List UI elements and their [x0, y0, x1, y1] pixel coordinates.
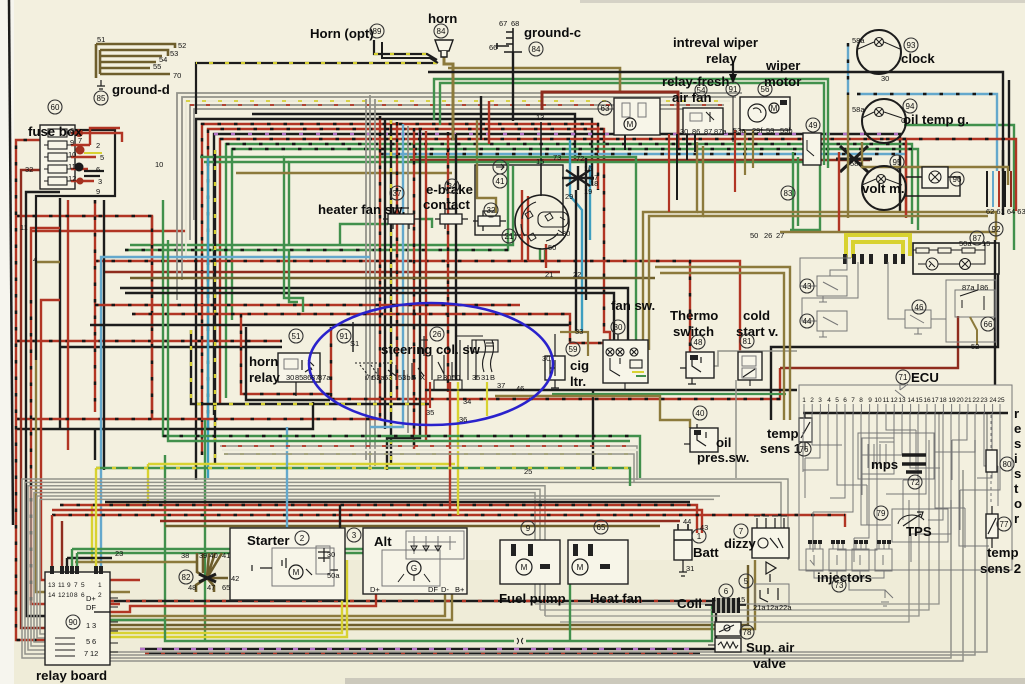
wire fusebox drop green — [164, 455, 166, 620]
svg-text:31: 31 — [481, 373, 489, 382]
wire relay drop blue — [100, 574, 102, 580]
svg-text:89: 89 — [373, 27, 382, 36]
svg-text:91: 91 — [340, 332, 349, 341]
svg-text:s: s — [1014, 466, 1021, 481]
svg-text:29f: 29f — [752, 126, 763, 135]
svg-text:DF: DF — [86, 603, 96, 612]
wire relay drop green2 — [76, 553, 78, 574]
svg-text:1: 1 — [802, 397, 806, 404]
svg-text:9: 9 — [67, 582, 71, 589]
svg-text:84: 84 — [532, 45, 541, 54]
svg-text:Coil: Coil — [677, 596, 702, 611]
svg-text:62 61 64 63: 62 61 64 63 — [986, 207, 1025, 216]
wire dark row 521 — [160, 520, 680, 522]
wire clock blue row — [857, 94, 997, 171]
wire mid row red 314 long — [132, 314, 603, 343]
wire fusebox drop black — [103, 200, 105, 470]
svg-text:30: 30 — [286, 373, 294, 382]
svg-text:cold: cold — [743, 308, 770, 323]
svg-text:46: 46 — [516, 384, 524, 393]
svg-text:22: 22 — [573, 270, 581, 279]
wire black row 354 — [771, 274, 998, 420]
wire ground-c lead — [512, 52, 514, 121]
svg-text:77: 77 — [1000, 520, 1009, 529]
ECU box — [799, 385, 1012, 570]
svg-text:44: 44 — [803, 317, 812, 326]
svg-text:55: 55 — [153, 62, 161, 71]
svg-text:42: 42 — [231, 574, 239, 583]
svg-text:Fuel pump: Fuel pump — [499, 591, 566, 606]
svg-text:21: 21 — [545, 270, 553, 279]
svg-text:6: 6 — [92, 637, 96, 646]
wire right black X junction — [836, 146, 872, 172]
wire horn relay red loop — [241, 314, 331, 394]
svg-text:34: 34 — [463, 397, 471, 406]
svg-text:M: M — [627, 120, 634, 129]
svg-text:oil: oil — [716, 435, 731, 450]
svg-text:9: 9 — [96, 187, 100, 196]
svg-text:19: 19 — [948, 397, 956, 404]
svg-text:86: 86 — [692, 127, 700, 136]
svg-text:7: 7 — [851, 397, 855, 404]
svg-text:22: 22 — [972, 397, 980, 404]
svg-text:54: 54 — [697, 86, 706, 95]
relay 46 box — [888, 262, 946, 334]
svg-text:3: 3 — [92, 621, 96, 630]
svg-text:e: e — [1014, 421, 1021, 436]
wire oil temp green — [904, 125, 1014, 250]
wire bottom black 601 — [110, 600, 712, 602]
wire blue row 154 — [380, 153, 906, 155]
relay board box — [45, 566, 118, 665]
temp sensor 2 — [986, 506, 998, 548]
svg-text:30: 30 — [542, 354, 550, 363]
wire steering yellow drop — [457, 382, 459, 515]
wire starter black top — [339, 505, 341, 528]
svg-text:53b: 53b — [398, 373, 411, 382]
relay 43 box — [800, 255, 851, 302]
svg-text:25: 25 — [524, 467, 532, 476]
svg-text:M: M — [293, 568, 300, 577]
wire red row341 — [16, 340, 282, 342]
svg-text:12: 12 — [58, 592, 66, 599]
svg-text:2: 2 — [300, 534, 305, 543]
wire black row 293 — [125, 293, 614, 340]
wire grey bundle A — [177, 93, 742, 300]
wire brown rows to batt — [105, 565, 748, 625]
wire trunk red right — [447, 132, 449, 392]
svg-text:wiper: wiper — [765, 58, 800, 73]
svg-text:43: 43 — [700, 523, 708, 532]
svg-text:4: 4 — [827, 397, 831, 404]
blue ellipse — [309, 303, 553, 425]
svg-text:83: 83 — [784, 189, 793, 198]
instrument cluster box — [913, 243, 999, 274]
svg-text:DF: DF — [428, 585, 438, 594]
svg-text:Horn (opt): Horn (opt) — [310, 26, 374, 41]
svg-text:48: 48 — [694, 338, 703, 347]
wire trunk black2 — [387, 130, 420, 470]
ECU pin numbers — [802, 397, 1005, 404]
svg-text:41: 41 — [496, 177, 505, 186]
wire bottom grey pair — [60, 413, 987, 661]
wire right dash drops — [987, 171, 1011, 207]
svg-text:o: o — [1014, 496, 1022, 511]
wire horn brown feed — [444, 56, 453, 140]
svg-text:91: 91 — [729, 85, 738, 94]
svg-text:volt m.: volt m. — [862, 181, 905, 196]
left scan border — [9, 0, 13, 525]
wire left edge red 1 — [16, 140, 90, 640]
svg-text:73: 73 — [835, 581, 844, 590]
steering yellow 34 — [486, 382, 488, 416]
battery — [674, 524, 692, 576]
ECU K switch — [895, 384, 908, 398]
wire green row 553 — [77, 552, 440, 554]
steering col switch internals — [355, 336, 498, 390]
svg-text:51: 51 — [97, 35, 105, 44]
wire black row 502 — [105, 501, 690, 503]
svg-text:5: 5 — [86, 637, 90, 646]
wire brown row 232 — [780, 231, 996, 233]
ECU pins — [804, 404, 1000, 413]
svg-text:steering col. sw: steering col. sw — [381, 342, 481, 357]
TPS box — [892, 509, 948, 542]
wire cyan drop left — [207, 158, 209, 478]
wire top bundle red 3 — [226, 144, 912, 398]
wire volt red vertical — [905, 142, 907, 215]
sup air valve box 78 — [708, 622, 741, 652]
svg-text:87: 87 — [973, 234, 982, 243]
alt box 3 — [363, 528, 467, 594]
wire top bundle red 1 — [202, 124, 598, 455]
svg-text:mps: mps — [871, 457, 898, 472]
svg-text:sens 1: sens 1 — [760, 441, 801, 456]
svg-text:injectors: injectors — [817, 570, 872, 585]
svg-text:10: 10 — [66, 592, 74, 599]
svg-text:relay: relay — [706, 51, 737, 66]
wire trunk blue — [370, 124, 403, 427]
scan edge strips — [345, 678, 1025, 684]
svg-text:39 40: 39 40 — [199, 551, 218, 560]
wire brown row212 — [697, 212, 996, 240]
svg-text:94: 94 — [906, 102, 915, 111]
relay 44 box — [802, 262, 858, 337]
wire brown right corners — [655, 267, 790, 420]
svg-text:motor: motor — [764, 74, 801, 89]
svg-text:horn: horn — [249, 354, 278, 369]
wire grey bus — [22, 479, 788, 658]
wire steering drop black — [425, 390, 797, 470]
svg-text:44: 44 — [683, 517, 691, 526]
svg-text:50: 50 — [452, 373, 460, 382]
svg-text:D+: D+ — [370, 585, 380, 594]
svg-text:temp: temp — [987, 545, 1019, 560]
svg-text:23: 23 — [115, 549, 123, 558]
svg-text:76: 76 — [800, 445, 809, 454]
coil — [705, 598, 746, 613]
wire trunk red to row420 — [16, 116, 380, 419]
resistor pack — [986, 415, 997, 505]
svg-text:36: 36 — [459, 415, 467, 424]
svg-text:48: 48 — [188, 583, 196, 592]
svg-text:30: 30 — [881, 74, 889, 83]
svg-text:5: 5 — [81, 582, 85, 589]
svg-text:58a: 58a — [852, 36, 865, 45]
svg-text:7: 7 — [739, 527, 744, 536]
oil temp gauge — [862, 99, 906, 143]
fuse box red cluster — [71, 128, 122, 181]
svg-text:63: 63 — [601, 104, 610, 113]
wire blue drop 287 — [286, 427, 288, 557]
cig lighter box 59 — [545, 332, 588, 388]
circled arrow 500,167 — [493, 160, 507, 174]
svg-text:50: 50 — [750, 231, 758, 240]
svg-text:53b: 53b — [780, 126, 793, 135]
svg-text:G: G — [901, 116, 907, 125]
svg-text:53: 53 — [384, 373, 392, 382]
wire mid green vertical — [204, 420, 206, 641]
svg-text:33: 33 — [575, 327, 583, 336]
svg-text:46: 46 — [915, 303, 924, 312]
wire ignition junction — [562, 166, 594, 190]
svg-text:58a: 58a — [852, 105, 865, 114]
svg-text:Thermo: Thermo — [670, 308, 718, 323]
svg-text:49: 49 — [809, 121, 818, 130]
wire relay box stubs — [625, 134, 695, 200]
svg-text:24: 24 — [989, 397, 997, 404]
svg-text:r: r — [1014, 406, 1019, 421]
svg-text:35: 35 — [426, 408, 434, 417]
mps box — [858, 433, 934, 479]
svg-text:26: 26 — [433, 330, 442, 339]
svg-text:i: i — [1014, 451, 1018, 466]
wire trunk dark — [455, 134, 457, 380]
svg-text:78: 78 — [743, 628, 752, 637]
svg-text:ground-d: ground-d — [112, 82, 170, 97]
svg-text:Heat fan: Heat fan — [590, 591, 642, 606]
wire left edge red 2 — [31, 228, 120, 604]
svg-text:51: 51 — [292, 332, 301, 341]
svg-text:21: 21 — [964, 397, 972, 404]
wire relay drop black — [66, 558, 68, 574]
wire red row267 — [104, 271, 560, 273]
svg-text:35: 35 — [472, 373, 480, 382]
svg-text:58a: 58a — [850, 159, 863, 168]
svg-text:ground-c: ground-c — [524, 25, 581, 40]
svg-text:15: 15 — [982, 239, 990, 248]
svg-text:relay: relay — [249, 370, 280, 385]
horn opt wires — [374, 40, 437, 60]
wire green row 641 — [165, 605, 712, 641]
svg-text:ltr.: ltr. — [570, 374, 586, 389]
air fan relay box — [683, 108, 723, 134]
svg-text:68: 68 — [511, 19, 519, 28]
wire gauges brown L — [862, 142, 1008, 185]
wire right edge black v — [1008, 80, 1010, 171]
wire brown row173 — [236, 172, 452, 174]
fuse box F — [40, 125, 75, 189]
wire left edge dark red — [21, 170, 100, 628]
wire trunk grey — [407, 126, 409, 433]
svg-text:37: 37 — [497, 381, 505, 390]
svg-text:85: 85 — [97, 94, 106, 103]
wire gauge brown vertical — [847, 95, 849, 218]
svg-text:52: 52 — [971, 342, 979, 351]
svg-text:84: 84 — [437, 27, 446, 36]
ECU internal wires — [803, 413, 1000, 562]
svg-text:86: 86 — [980, 283, 988, 292]
svg-text:M: M — [771, 104, 778, 113]
svg-text:11: 11 — [883, 397, 890, 404]
svg-text:34: 34 — [448, 182, 457, 191]
svg-text:87a: 87a — [318, 373, 331, 382]
svg-text:59: 59 — [569, 345, 578, 354]
injectors — [806, 540, 893, 606]
svg-text:30: 30 — [562, 229, 570, 238]
cold start valve box 81 — [738, 352, 762, 386]
svg-text:50: 50 — [548, 243, 556, 252]
wire interval relay drop — [732, 96, 734, 142]
wire top bundle dark red — [214, 134, 900, 415]
svg-text:11: 11 — [20, 223, 28, 232]
svg-text:15: 15 — [536, 157, 544, 166]
svg-text:7: 7 — [74, 582, 78, 589]
wire left edge red 3 — [41, 300, 140, 580]
svg-text:43: 43 — [803, 282, 812, 291]
svg-text:r: r — [1014, 511, 1019, 526]
wire relay drop darkred — [61, 521, 63, 574]
svg-text:71: 71 — [899, 373, 908, 382]
svg-text:12a: 12a — [766, 603, 779, 612]
wire red bus 505 — [60, 505, 697, 533]
svg-text:30: 30 — [614, 323, 623, 332]
fuse box black frame — [36, 130, 115, 360]
svg-text:7: 7 — [78, 136, 82, 145]
svg-text:95: 95 — [893, 158, 902, 167]
svg-text:30: 30 — [443, 373, 451, 382]
interval wiper arrow — [732, 62, 734, 78]
svg-text:3: 3 — [818, 397, 822, 404]
svg-text:t: t — [1014, 481, 1019, 496]
svg-text:pres.sw.: pres.sw. — [697, 450, 749, 465]
svg-text:30: 30 — [680, 127, 688, 136]
wire red drop cluster — [838, 152, 840, 232]
relay board right stubs — [94, 611, 110, 613]
svg-text:72: 72 — [576, 154, 584, 163]
svg-text:5: 5 — [744, 577, 749, 586]
instrument right box — [946, 280, 996, 345]
wire brown rows to alt — [95, 592, 445, 616]
svg-text:X: X — [420, 373, 425, 382]
wire red bus 515 — [52, 515, 845, 527]
wire wiper green feed — [434, 79, 828, 168]
svg-text:96: 96 — [953, 175, 962, 184]
wire green row 549 — [72, 548, 460, 550]
svg-text:21a: 21a — [753, 603, 766, 612]
svg-text:26: 26 — [764, 231, 772, 240]
svg-text:87: 87 — [704, 127, 712, 136]
wire yellow row463 — [148, 464, 455, 505]
svg-text:92: 92 — [992, 225, 1001, 234]
wire brown drop ebrake — [477, 120, 496, 213]
svg-text:14: 14 — [907, 397, 915, 404]
svg-text:ECU: ECU — [911, 370, 939, 385]
svg-text:29: 29 — [565, 192, 573, 201]
wire trunk yellow — [390, 120, 392, 464]
wire heat fan green vertical — [569, 540, 571, 641]
svg-text:66: 66 — [984, 320, 993, 329]
wire black row 288 — [120, 288, 628, 340]
wire right col black verticals — [994, 240, 996, 385]
clock gauge — [857, 30, 901, 74]
svg-text:13: 13 — [898, 397, 906, 404]
svg-text:S1: S1 — [350, 339, 359, 348]
wire oil temp red — [886, 139, 1016, 211]
wire red vertical horn relay — [330, 327, 332, 399]
dizzy box 7 — [752, 516, 789, 558]
svg-text:2: 2 — [98, 592, 102, 599]
wire ignition red pair — [521, 190, 523, 261]
wire top bundle blue — [220, 139, 906, 405]
svg-text:Starter: Starter — [247, 533, 290, 548]
wire ignition dark pair — [575, 190, 577, 332]
wire red2 row 160 — [410, 159, 870, 161]
svg-text:11: 11 — [68, 162, 76, 171]
wire left edge black — [26, 192, 110, 616]
svg-text:10: 10 — [68, 150, 76, 159]
wire yellow instrument loop — [846, 235, 910, 258]
svg-text:12: 12 — [90, 649, 98, 658]
wire top row black 114 — [252, 114, 575, 160]
svg-text:M: M — [521, 563, 528, 572]
wire top bundle green pair — [232, 149, 918, 320]
wire green stub horn area — [284, 245, 303, 312]
svg-text:fan sw.: fan sw. — [611, 298, 655, 313]
wire ECU bottom grey loops — [535, 413, 939, 622]
svg-text:4: 4 — [33, 255, 37, 264]
svg-text:41: 41 — [222, 551, 230, 560]
wire black row 558 w 23 — [67, 557, 112, 559]
wire purple dash black pair — [140, 612, 716, 649]
wire red row231 — [31, 230, 186, 232]
svg-text:5: 5 — [835, 397, 839, 404]
svg-text:79: 79 — [877, 509, 886, 518]
svg-text:7: 7 — [84, 649, 88, 658]
wire green loop heater fan — [284, 157, 636, 340]
oil pressure switch box 40 — [684, 424, 718, 452]
relay fresh air fan box 63 — [614, 98, 660, 135]
svg-text:12: 12 — [68, 174, 76, 183]
heater fan switch — [383, 208, 420, 229]
wire green pair below ignition — [540, 248, 545, 261]
svg-text:30: 30 — [327, 550, 335, 559]
svg-text:52: 52 — [178, 41, 186, 50]
svg-text:20: 20 — [956, 397, 964, 404]
wire ignition dark blue — [585, 158, 587, 300]
svg-text:10: 10 — [874, 397, 882, 404]
wire trunk black to row412 — [16, 118, 385, 460]
thermo switch box 48 — [680, 352, 714, 384]
svg-text:intreval wiper: intreval wiper — [673, 35, 758, 50]
svg-text:9: 9 — [70, 138, 74, 147]
svg-text:s: s — [1014, 436, 1021, 451]
wire trunk red long row399 — [396, 122, 398, 399]
svg-text:2: 2 — [810, 397, 814, 404]
svg-text:32: 32 — [25, 165, 33, 174]
wire yellow pair rows — [90, 556, 342, 633]
svg-text:67: 67 — [499, 19, 507, 28]
